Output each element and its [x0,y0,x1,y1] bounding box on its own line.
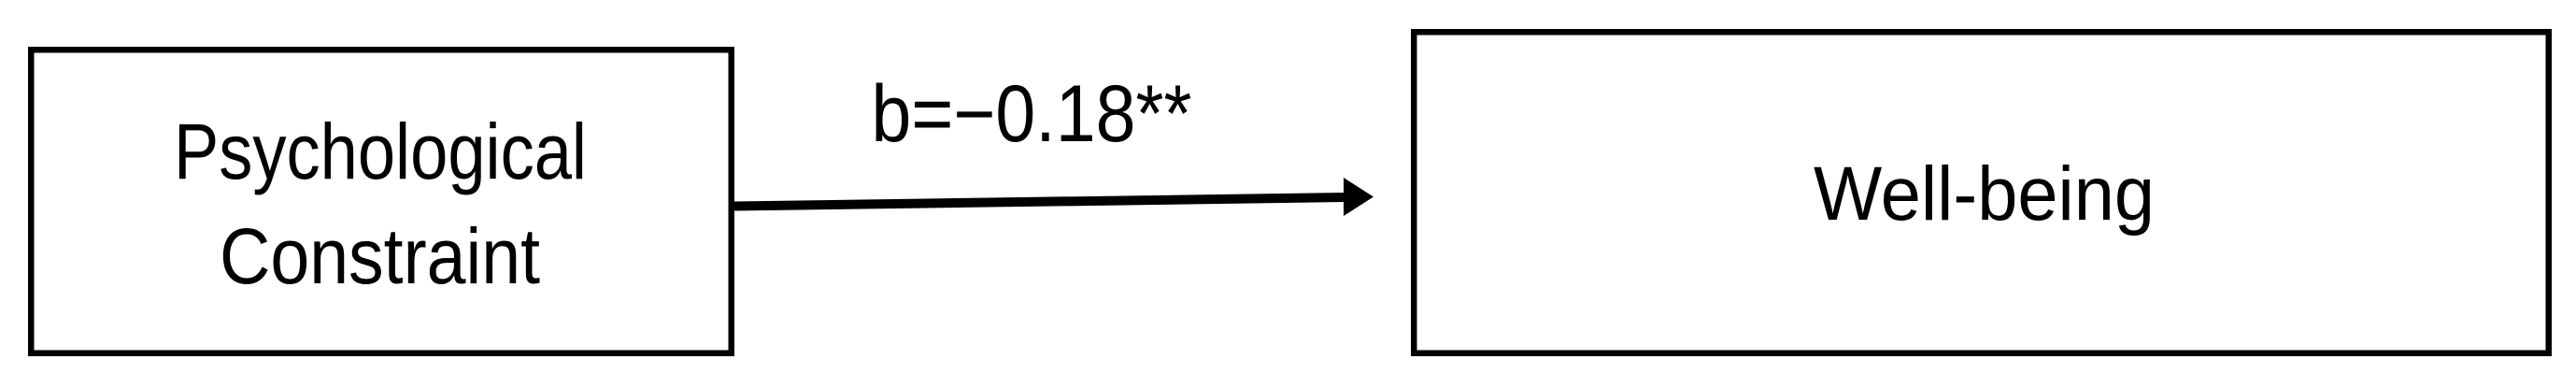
arrow: path b [734,178,1373,216]
svg-text:Psychological: Psychological [174,108,587,195]
svg-text:Well-being: Well-being [1814,151,2155,237]
box: Psychological Constraint [31,50,732,353]
box: Well-being [1414,32,2549,353]
svg-text:b=−0.18**: b=−0.18** [872,69,1192,159]
svg-text:Constraint: Constraint [220,212,540,300]
